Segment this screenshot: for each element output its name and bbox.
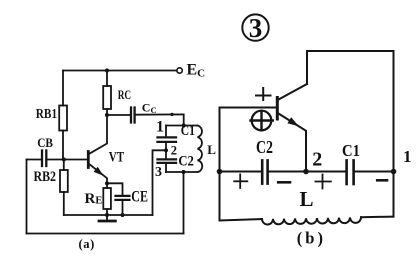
wire: top supply rail (a) [63, 70, 177, 72]
circled-plus source symbol (b) [252, 111, 272, 131]
inductor L (b) [262, 217, 361, 224]
wire: left feedback drop [26, 160, 28, 234]
minus sign right of C1 (b) [377, 179, 387, 182]
wire: top rail (b) [307, 50, 394, 52]
plus polarity mark above base (b) [256, 88, 271, 100]
transistor VT emitter arrow [94, 167, 104, 176]
wire: RE bottom [106, 209, 108, 215]
wire: node 2 tap to emitter rail [153, 150, 167, 215]
svg-text:CE: CE [131, 189, 148, 206]
transistor VT emitter lead [90, 165, 107, 184]
svg-text:RB1: RB1 [36, 106, 57, 121]
svg-text:CB: CB [37, 135, 53, 150]
node: left dot (b) [217, 169, 223, 175]
plus sign left of C2 (b) [234, 174, 247, 188]
wire: RC lower to collector node [106, 109, 108, 115]
wire: bottom rail right segment (b) [361, 216, 394, 219]
wire: C2 bottom lead [165, 163, 167, 172]
wire: tank top rail [166, 125, 198, 127]
node: RE bottom junction dot [105, 213, 109, 217]
node: emitter junction dot [105, 181, 109, 185]
wire: RB1 branch upper [62, 71, 64, 106]
capacitor Cc [131, 108, 135, 123]
resistor RE [103, 188, 111, 209]
capacitor C2 (b) [262, 160, 267, 183]
wire: collector node to Cc [107, 114, 131, 116]
transistor VT base bar [87, 152, 90, 168]
node 3 junction dot [181, 170, 185, 174]
node: tank top junction dot [182, 123, 186, 127]
capacitor C2 (tank) [158, 159, 177, 163]
node 1 dot (b) [391, 169, 397, 175]
svg-text:(b): (b) [297, 229, 326, 248]
wire: RB2 top lead [63, 160, 65, 171]
wire: main wire segment mid (b) [268, 171, 346, 173]
capacitor CB [42, 151, 46, 167]
wire: collector vertical (b) [306, 51, 308, 84]
circled 3 figure number [242, 14, 268, 40]
minus sign right of C2 (b) [278, 181, 290, 184]
node: collector junction dot [105, 113, 109, 117]
node: base junction dot [62, 157, 66, 161]
svg-text:C2: C2 [178, 154, 194, 170]
plus sign left of C1 (b) [315, 175, 331, 189]
wire: C1-C2 mid column [165, 142, 167, 160]
wire: RB1 lower to base node [62, 131, 64, 160]
wire: Cc to tank corner [135, 114, 184, 125]
svg-text:3: 3 [249, 13, 263, 43]
svg-text:(a): (a) [79, 237, 95, 251]
wire: base wire (b) [220, 107, 277, 109]
wire: base wire CB to bar [46, 159, 87, 161]
transistor emitter arrow (b) [287, 117, 299, 126]
ground symbol [106, 215, 108, 220]
wire: RB2 bottom lead [63, 192, 65, 215]
node: CE bottom junction dot [120, 213, 124, 217]
node: junction dot top rail at RC [105, 68, 109, 72]
svg-text:L: L [207, 142, 216, 157]
terminal Ec open circle [177, 68, 182, 73]
wire: main wire segment left (b) [220, 171, 262, 173]
wire: C1 top lead [165, 126, 167, 138]
svg-text:C2: C2 [256, 137, 273, 157]
svg-text:VT: VT [109, 150, 124, 166]
wire: emitter node to CE branch [107, 183, 123, 196]
node: small dot on Cc wire [170, 113, 173, 116]
transistor emitter diagonal (b) [279, 114, 307, 172]
svg-text:C1: C1 [181, 123, 195, 139]
svg-text:1: 1 [403, 147, 412, 166]
capacitor CE [116, 196, 130, 200]
wire: CE bottom [122, 200, 124, 215]
wire: CB left lead [27, 159, 43, 161]
capacitor C1 (tank) [158, 137, 177, 142]
wire: outer bottom rail (a) [27, 233, 184, 235]
svg-text:RB2: RB2 [34, 169, 57, 185]
svg-text:3: 3 [155, 165, 162, 180]
svg-text:2: 2 [312, 149, 322, 171]
transistor collector diagonal (b) [279, 84, 308, 100]
wire: tank bottom feedback riser [183, 172, 185, 234]
wire: main wire segment right (b) [354, 171, 394, 173]
node 2 dot (a) [164, 148, 168, 152]
wire: left vertical (b) [219, 108, 221, 221]
wire: bottom rail left segment (b) [220, 219, 263, 221]
transistor base bar (b) [276, 98, 279, 120]
wire: emitter to RE [106, 183, 108, 188]
capacitor C1 (b) [347, 160, 354, 184]
svg-text:C1: C1 [342, 141, 360, 160]
svg-text:RC: RC [118, 88, 131, 102]
resistor RB1 [59, 106, 67, 131]
wire: right vertical (b) [393, 51, 395, 217]
transistor VT collector lead [90, 115, 107, 154]
wire: emitter ground rail [64, 214, 153, 216]
inductor L (tank coil) [198, 126, 203, 173]
resistor RC [103, 86, 111, 109]
wire: RC branch upper [106, 71, 108, 87]
resistor RB2 [60, 170, 68, 192]
node 2 dot (b) [303, 169, 309, 175]
wire: tank bottom rail [166, 171, 198, 173]
svg-text:L: L [300, 187, 314, 211]
svg-text:1: 1 [156, 118, 164, 135]
svg-text:2: 2 [171, 143, 177, 157]
